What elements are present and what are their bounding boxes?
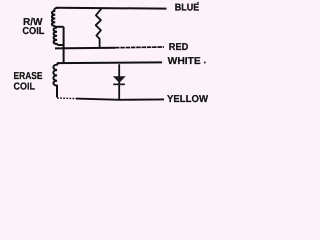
svg-text:ERASE: ERASE [14, 71, 43, 82]
svg-text:COIL: COIL [14, 82, 36, 93]
svg-text:YELLOW: YELLOW [167, 94, 209, 105]
svg-text:BLUE: BLUE [175, 3, 200, 14]
svg-text:RED: RED [169, 42, 189, 53]
svg-text:WHITE: WHITE [168, 56, 201, 67]
svg-text:COIL: COIL [22, 26, 44, 37]
